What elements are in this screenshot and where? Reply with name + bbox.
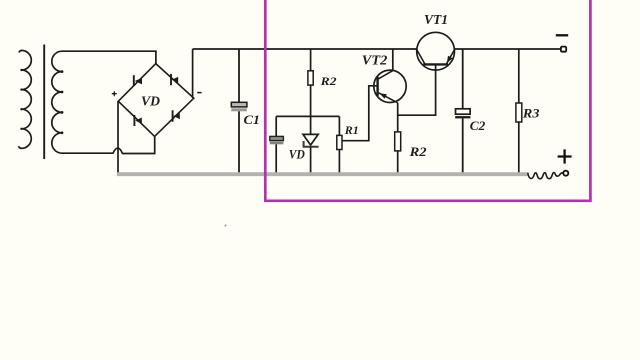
transistor VT1 emitter diagonal	[446, 50, 454, 64]
bridge diode lower-left	[134, 115, 141, 126]
svg-text:R1: R1	[344, 123, 359, 137]
transistor VT2 emitter diagonal	[379, 93, 398, 103]
transformer core	[43, 45, 45, 160]
transistor VT1 emitter arrow	[447, 56, 453, 63]
transistor VT2 collector diagonal	[379, 71, 393, 79]
capacitor C1 top lead	[238, 49, 240, 103]
wire R1 tap to VT2 base	[342, 86, 377, 141]
capacitor C2 plates	[456, 109, 471, 114]
resistor R2b bottom lead	[397, 151, 399, 175]
bridge diode lower-right	[173, 110, 180, 121]
highlight box (annotation)	[265, 0, 590, 201]
filter capacitor plates	[270, 136, 284, 140]
resistor R2a top lead	[310, 49, 312, 71]
wire secondary bottom to bridge (with hop)	[62, 136, 155, 153]
winding cusp dots	[20, 69, 63, 134]
svg-text:R2: R2	[320, 74, 337, 88]
plus output sign	[558, 149, 572, 163]
transistor VT1 base bar	[423, 63, 448, 65]
plus output terminal	[563, 171, 568, 176]
resistor R1 body	[337, 135, 342, 149]
svg-text:VD: VD	[141, 94, 160, 109]
bridge minus mark	[197, 92, 201, 94]
capacitor C1 bottom lead	[238, 111, 240, 175]
filter capacitor bottom lead	[275, 144, 277, 175]
resistor R3 body	[516, 103, 522, 122]
svg-text:C2: C2	[470, 119, 486, 133]
svg-text:VD: VD	[289, 147, 306, 162]
resistor R3 bottom lead	[518, 122, 520, 175]
wire bridge minus output up to top rail	[192, 49, 194, 98]
bottom gray rail	[117, 172, 529, 176]
wire VT2 emitter down	[397, 103, 399, 132]
resistor R2a bottom lead	[310, 85, 312, 116]
svg-text:C1: C1	[244, 113, 261, 127]
transistor VT2 collector wire to top rail	[392, 49, 394, 71]
transistor VT2 emitter arrow	[380, 93, 387, 99]
scribble coil annotation	[528, 173, 563, 179]
top rail left segment	[193, 48, 417, 50]
transistor VT2 circle	[374, 70, 406, 102]
minus output sign	[556, 34, 568, 36]
svg-text:R3: R3	[522, 107, 540, 121]
resistor R3 top lead	[518, 49, 520, 103]
svg-text:R2: R2	[408, 145, 426, 159]
resistor R2b body	[395, 132, 401, 151]
transformer T1 primary winding	[19, 50, 32, 148]
wire bridge plus output down to rail	[117, 101, 119, 175]
diode bridge VD diamond	[118, 64, 194, 137]
capacitor C2 bottom lead	[462, 118, 464, 175]
bridge diode upper-left	[134, 75, 142, 86]
transistor VT1 circle	[417, 32, 455, 70]
svg-text:VT2: VT2	[362, 54, 388, 69]
wire VT2 emitter to VT1 base	[398, 65, 436, 116]
bridge plus mark	[112, 91, 117, 96]
transformer T1 secondary winding	[52, 51, 62, 153]
capacitor C1 plates	[231, 102, 247, 107]
node line zener	[276, 115, 339, 117]
filter capacitor (unlabeled) top lead	[275, 116, 277, 136]
top rail right segment	[454, 48, 561, 50]
zener diode VD cathode bar	[304, 141, 319, 147]
zener diode VD bottom lead	[310, 147, 312, 175]
resistor R1 bottom lead	[338, 150, 340, 176]
stray dot	[224, 224, 226, 226]
wire secondary top to bridge	[62, 51, 156, 63]
zener diode VD top lead	[310, 116, 312, 134]
svg-text:VT1: VT1	[424, 13, 448, 28]
transistor VT2 base bar	[376, 77, 378, 96]
capacitor C2 top lead	[462, 49, 464, 109]
zener diode VD triangle	[303, 134, 318, 145]
resistor R2a body	[308, 71, 313, 85]
resistor R1 top lead	[338, 116, 340, 135]
minus output terminal	[561, 47, 566, 52]
transistor VT1 collector diagonal	[417, 50, 425, 64]
bridge diode upper-right	[171, 74, 178, 85]
